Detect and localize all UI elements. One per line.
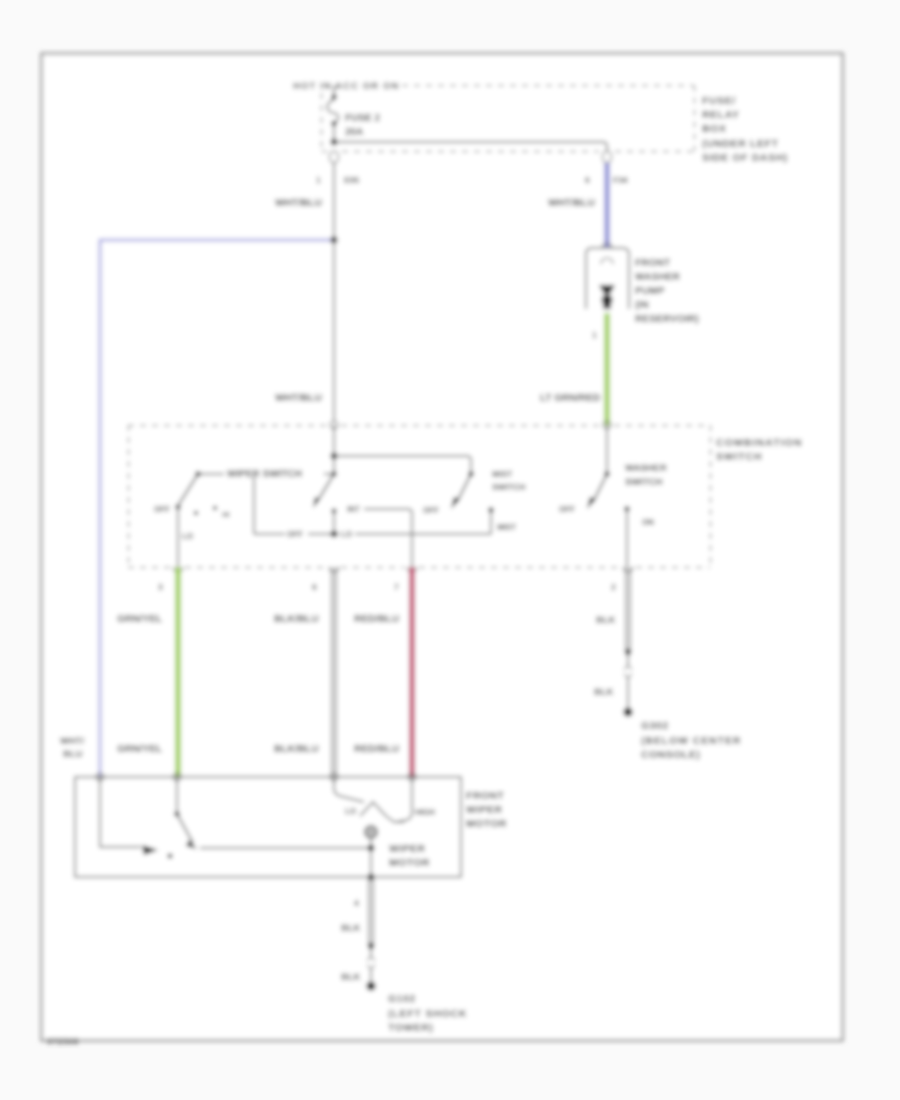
park contact	[142, 845, 158, 855]
fuse/relay box label	[702, 95, 788, 164]
wire RED/BLU	[409, 567, 415, 777]
svg-text:6: 6	[585, 175, 590, 185]
svg-text:WASHER: WASHER	[625, 463, 667, 474]
park feed line	[100, 777, 141, 847]
svg-text:(BELOW CENTER: (BELOW CENTER	[641, 735, 741, 747]
svg-text:LO: LO	[182, 532, 193, 541]
svg-text:OFF: OFF	[154, 505, 170, 514]
svg-text:2: 2	[611, 582, 616, 592]
svg-text:BLK: BLK	[341, 923, 361, 934]
page sheet	[42, 54, 843, 1041]
svg-text:HOT IN ACC OR ON: HOT IN ACC OR ON	[293, 81, 399, 92]
svg-text:FRONT: FRONT	[635, 258, 670, 269]
node: wiper switch feed junction	[331, 453, 338, 460]
svg-text:RED/BLU: RED/BLU	[354, 744, 399, 755]
svg-text:WASHER: WASHER	[635, 272, 681, 283]
washer switch feed	[606, 425, 608, 472]
wire BLK below motor	[369, 877, 373, 946]
svg-text:FUSE 2: FUSE 2	[345, 113, 380, 124]
node: wiper switch common pivot	[331, 471, 336, 476]
svg-text:TOWER): TOWER)	[388, 1022, 433, 1034]
node: mist switch pivot	[468, 471, 473, 476]
ground G302	[623, 707, 632, 716]
drop from common line	[253, 474, 255, 534]
connector on BLK wire to G102	[368, 943, 374, 949]
svg-text:PUMP: PUMP	[635, 286, 665, 297]
svg-text:SIDE OF DASH): SIDE OF DASH)	[702, 152, 788, 164]
connector oval pin 1	[330, 151, 339, 163]
svg-text:1: 1	[316, 175, 321, 185]
svg-text:BLK/BLU: BLK/BLU	[274, 614, 319, 625]
svg-text:BOX: BOX	[702, 123, 727, 135]
svg-text:COMBINATION: COMBINATION	[716, 437, 803, 449]
svg-text:BLU: BLU	[63, 749, 83, 760]
node: bus junction	[331, 531, 338, 538]
connector oval pin 6	[603, 151, 612, 163]
svg-text:LO: LO	[345, 807, 356, 816]
svg-text:WIPER: WIPER	[389, 843, 425, 855]
node: motor ground junction	[368, 845, 375, 852]
svg-text:INT: INT	[347, 505, 360, 514]
mist switch arm	[457, 474, 471, 502]
inline connector G102 wire	[370, 949, 372, 981]
svg-text:ON: ON	[642, 518, 654, 527]
svg-text:OFF: OFF	[423, 506, 439, 515]
svg-text:1: 1	[592, 330, 597, 340]
wire GRN/YEL	[175, 567, 181, 777]
svg-text:BLK: BLK	[594, 687, 614, 698]
fuse box (dashed)	[322, 86, 695, 152]
combination switch box (dashed)	[128, 425, 711, 568]
svg-text:(IN: (IN	[635, 300, 649, 311]
wire blue branch left	[100, 240, 334, 777]
svg-text:WIPER: WIPER	[466, 804, 502, 816]
wire WHT/BLU to switch	[333, 240, 335, 421]
svg-text:972508: 972508	[47, 1036, 79, 1046]
svg-text:4: 4	[354, 898, 359, 908]
contact: MIST	[488, 507, 493, 512]
svg-text:RELAY: RELAY	[702, 109, 740, 121]
svg-text:SWITCH: SWITCH	[625, 477, 663, 488]
svg-text:RESERVOIR): RESERVOIR)	[635, 314, 699, 325]
motor brush circuit	[334, 777, 364, 802]
park bus to motor	[200, 847, 371, 849]
svg-text:MIST: MIST	[492, 469, 513, 479]
svg-text:BLK/BLU: BLK/BLU	[274, 744, 319, 755]
wire blue right to pump	[604, 163, 609, 247]
svg-text:WHT/BLU: WHT/BLU	[548, 198, 595, 209]
front wiper motor box	[75, 777, 461, 877]
svg-text:BLK: BLK	[596, 615, 616, 626]
wire LT GRN/RED	[604, 313, 610, 425]
pump labels	[635, 258, 699, 325]
svg-text:CONSOLE): CONSOLE)	[641, 749, 700, 761]
comb box entry bumps	[330, 421, 338, 429]
svg-text:MOTOR: MOTOR	[389, 857, 430, 869]
svg-text:MOTOR: MOTOR	[466, 818, 507, 830]
motor box entry bumps	[96, 773, 416, 781]
wire BLK to G302	[626, 567, 630, 652]
bus inside fuse box	[334, 142, 607, 151]
contact: washer ON	[624, 506, 629, 511]
svg-text:HIGH: HIGH	[415, 808, 435, 817]
svg-text:WHT/: WHT/	[60, 736, 85, 747]
wire WHT/BLU main vertical	[333, 163, 335, 240]
bus line low	[254, 533, 491, 535]
svg-text:GRN/YEL: GRN/YEL	[117, 744, 162, 755]
pump connector bump	[602, 243, 612, 248]
INT HI contact dots	[194, 511, 198, 515]
svg-text:E05: E05	[344, 175, 359, 185]
svg-text:20A: 20A	[345, 127, 363, 138]
node junction	[330, 236, 337, 243]
svg-text:OFF: OFF	[559, 505, 575, 514]
wire to mist pivot	[334, 456, 471, 472]
ground G102	[366, 981, 375, 990]
svg-text:SWITCH: SWITCH	[492, 482, 526, 492]
svg-text:HI: HI	[222, 510, 230, 519]
contact: wiper OFF/LO	[175, 504, 180, 509]
mist contact riser	[490, 511, 492, 534]
node: fuse output junction	[331, 139, 338, 146]
svg-text:WHT/BLU: WHT/BLU	[275, 393, 322, 404]
fuse 2 symbol	[327, 85, 338, 139]
svg-text:GRN/YEL: GRN/YEL	[117, 614, 162, 625]
washer pump box	[586, 248, 629, 309]
svg-text:LT GRN/RED: LT GRN/RED	[540, 393, 600, 404]
pump inner connector arc	[601, 258, 613, 264]
svg-text:LO: LO	[341, 530, 352, 539]
node: washer switch pivot	[604, 471, 609, 476]
svg-text:(LEFT SHOCK: (LEFT SHOCK	[388, 1008, 467, 1020]
svg-text:(UNDER LEFT: (UNDER LEFT	[702, 138, 779, 150]
node: motor box exit	[368, 874, 375, 881]
wiper arm main	[317, 474, 334, 502]
svg-text:SWITCH: SWITCH	[716, 451, 762, 463]
connector on BLK wire	[625, 649, 631, 655]
svg-text:BLK: BLK	[341, 972, 361, 983]
inline connector G302 wire	[627, 655, 629, 707]
contact: motor LO input	[174, 811, 179, 816]
svg-text:6: 6	[312, 582, 317, 592]
contact below pivot	[332, 509, 337, 514]
svg-text:OFF: OFF	[287, 530, 303, 539]
lo contact and arm	[176, 777, 178, 812]
svg-text:FUSE/: FUSE/	[702, 95, 736, 107]
svg-text:F34: F34	[613, 175, 628, 185]
comb box exit bumps	[173, 567, 633, 572]
svg-text:3: 3	[158, 582, 163, 592]
wiper switch common line	[198, 473, 334, 475]
node: wiper switch arm pivot left	[195, 471, 200, 476]
wiper arm left	[179, 474, 198, 504]
wire BLK/BLU double	[332, 567, 336, 777]
svg-text:FRONT: FRONT	[466, 790, 504, 802]
motor to ground wire	[370, 837, 372, 877]
svg-text:G302: G302	[641, 720, 669, 732]
svg-text:WHT/BLU: WHT/BLU	[275, 198, 322, 209]
svg-text:MIST: MIST	[497, 523, 516, 532]
wire LO contact down	[177, 507, 179, 567]
wiper switch feed	[333, 425, 335, 474]
washer arm	[593, 474, 607, 502]
svg-text:RED/BLU: RED/BLU	[354, 614, 399, 625]
motor armature	[366, 827, 377, 838]
svg-text:7: 7	[394, 582, 399, 592]
svg-text:G102: G102	[388, 993, 416, 1005]
washer pump motor icon	[599, 285, 615, 294]
svg-text:WIPER SWITCH: WIPER SWITCH	[227, 469, 302, 480]
